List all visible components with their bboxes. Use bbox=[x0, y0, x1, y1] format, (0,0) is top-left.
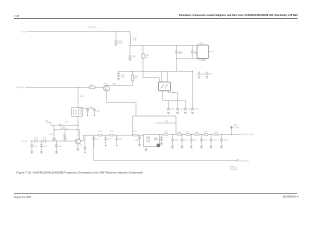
pin 2 of Y240 bbox=[204, 59, 206, 63]
capacitor C209 bbox=[51, 121, 78, 126]
header title text bbox=[179, 14, 298, 17]
inductor L246 series bbox=[164, 132, 168, 136]
capacitor C216 feed bbox=[49, 125, 55, 141]
svg-text:C221: C221 bbox=[119, 139, 123, 141]
resistor R240 bbox=[142, 45, 149, 77]
svg-text:C211: C211 bbox=[43, 138, 47, 140]
capacitor C222 in box bbox=[155, 138, 157, 140]
wire Q241 emitter bbox=[106, 91, 136, 116]
capacitor C227 series bbox=[214, 132, 218, 136]
ground below C224 bbox=[160, 143, 163, 145]
note shield text bbox=[230, 167, 239, 171]
resistor R241 bbox=[131, 71, 138, 85]
svg-text:.01UF: .01UF bbox=[118, 43, 122, 45]
ground below C229 bbox=[181, 147, 184, 149]
capacitor C229 shunt bbox=[181, 135, 188, 147]
svg-text:6816958H01-A: 6816958H01-A bbox=[283, 196, 299, 199]
svg-text:C215: C215 bbox=[58, 146, 62, 148]
terminal lower bus bbox=[237, 160, 239, 162]
capacitor C226 series bbox=[195, 132, 199, 136]
ground below C248 bbox=[117, 78, 120, 80]
svg-text:L241: L241 bbox=[62, 127, 66, 129]
svg-text:C247: C247 bbox=[209, 73, 213, 75]
ground stub below U240 box bbox=[145, 147, 148, 151]
label Y241 bbox=[172, 92, 176, 94]
wire Q240 output bbox=[80, 135, 143, 140]
svg-text:R246: R246 bbox=[80, 96, 84, 98]
footer date bbox=[14, 196, 32, 199]
footer rule bbox=[14, 193, 298, 195]
capacitor C210 series bbox=[34, 138, 38, 142]
svg-text:C251: C251 bbox=[180, 109, 184, 111]
svg-text:C228: C228 bbox=[174, 140, 178, 142]
label U240 bbox=[146, 137, 150, 139]
capacitor C250 bbox=[167, 101, 175, 112]
wire osc feeds bbox=[162, 71, 168, 82]
svg-text:C252: C252 bbox=[187, 109, 191, 111]
ground below C232 bbox=[210, 147, 213, 149]
svg-text:C240: C240 bbox=[118, 41, 122, 43]
capacitor C213 bbox=[62, 130, 66, 141]
footer part number 6816958H01-A bbox=[283, 196, 299, 199]
svg-text:3: 3 bbox=[212, 52, 213, 54]
svg-text:C213: C213 bbox=[62, 135, 66, 137]
label Y240 bbox=[199, 43, 203, 45]
junction bias at R drop bbox=[77, 125, 78, 126]
wire osc bottom bus bbox=[163, 100, 186, 102]
capacitor C232 shunt bbox=[210, 135, 217, 147]
wire lock line bbox=[25, 86, 104, 88]
capacitor C245 bbox=[93, 108, 100, 114]
capacitor C214 shunt bbox=[40, 141, 47, 152]
svg-text:L248: L248 bbox=[204, 132, 208, 134]
capacitor C242 bbox=[175, 45, 183, 55]
svg-text:C224: C224 bbox=[158, 140, 162, 142]
svg-text:C209: C209 bbox=[65, 121, 69, 123]
svg-text:C245: C245 bbox=[96, 111, 100, 113]
capacitor C221 shunt bbox=[115, 135, 122, 145]
inductor L243 series bbox=[98, 131, 103, 136]
ground below C221 bbox=[116, 145, 117, 146]
ground below C251 bbox=[176, 112, 179, 114]
wire to test point bbox=[231, 128, 233, 134]
ground below C219 bbox=[105, 145, 106, 146]
capacitor C253 bbox=[191, 109, 199, 111]
junction at L241 bbox=[53, 129, 54, 130]
capacitor C228 shunt bbox=[171, 135, 178, 147]
shield box upper bbox=[133, 116, 177, 135]
wire lower bus bbox=[94, 159, 237, 161]
inductor L248 series bbox=[204, 132, 208, 136]
capacitor C240 bbox=[115, 31, 123, 45]
svg-text:33PF: 33PF bbox=[178, 53, 182, 55]
svg-text:C242: C242 bbox=[178, 51, 182, 53]
svg-text:RX_INJ: RX_INJ bbox=[234, 127, 240, 129]
svg-text:C223: C223 bbox=[135, 140, 139, 142]
svg-text:C217: C217 bbox=[79, 145, 83, 147]
svg-text:C244: C244 bbox=[89, 106, 93, 108]
ground below C245 bbox=[94, 114, 95, 116]
module Y240 bbox=[197, 45, 209, 59]
net name on 9V rail bbox=[88, 27, 97, 29]
ground below C233 bbox=[220, 147, 223, 149]
svg-text:C227: C227 bbox=[214, 132, 218, 134]
junction lock line bbox=[77, 87, 78, 88]
wire buffer rail bbox=[118, 70, 193, 72]
svg-text:C220: C220 bbox=[109, 131, 113, 133]
svg-text:2: 2 bbox=[205, 60, 206, 62]
capacitor C231 shunt bbox=[200, 135, 207, 147]
capacitor C220 series bbox=[109, 131, 113, 136]
net label RX input bbox=[22, 141, 28, 143]
wire 9V rail bbox=[28, 30, 130, 32]
wire Q240 emitter bbox=[77, 144, 79, 149]
capacitor C225 series bbox=[177, 132, 181, 136]
capacitor C218 shunt bbox=[92, 135, 99, 145]
svg-text:1UH: 1UH bbox=[133, 39, 137, 41]
figure caption bbox=[16, 170, 143, 174]
wire osc out right bbox=[169, 91, 178, 101]
wire long drop bbox=[192, 71, 194, 108]
junction buffer rail left bbox=[132, 71, 133, 72]
label Q241 bbox=[104, 83, 108, 85]
wire bias caps bus bbox=[78, 107, 94, 109]
wire T240 primary bbox=[156, 121, 176, 123]
svg-text:L247: L247 bbox=[186, 132, 190, 134]
wire rx input 2 bbox=[37, 140, 43, 142]
capacitor C246 bbox=[198, 71, 206, 75]
wire to lower bus bbox=[93, 135, 95, 160]
inductor L247 series bbox=[186, 132, 190, 136]
ground below Q240 bbox=[77, 149, 80, 151]
svg-text:RX_INJ_VHF: RX_INJ_VHF bbox=[243, 134, 255, 136]
svg-text:C216: C216 bbox=[49, 134, 53, 136]
capacitor C215 shunt bbox=[55, 141, 62, 152]
svg-text:L242: L242 bbox=[133, 38, 137, 40]
wire output chain bbox=[160, 134, 232, 136]
ground below C217 bbox=[84, 149, 85, 153]
svg-text:RX_INJ_50: RX_INJ_50 bbox=[240, 161, 249, 163]
svg-text:Figure 7-22. HUD4022A/HUD4025B: Figure 7-22. HUD4022A/HUD4025B Frequency… bbox=[16, 170, 143, 174]
wire output stub bbox=[232, 134, 242, 136]
resistor R242 in box bbox=[147, 138, 149, 141]
svg-text:C231: C231 bbox=[203, 140, 207, 142]
net label 9V_RF bbox=[21, 31, 27, 33]
ground below C212 bbox=[31, 152, 34, 154]
capacitor C219 shunt bbox=[104, 135, 111, 145]
ground below C240 bbox=[115, 44, 118, 46]
capacitor C223 shunt bbox=[135, 135, 141, 144]
capacitor C211 series bbox=[43, 138, 47, 142]
ground below C218 bbox=[93, 145, 94, 146]
svg-text:C214: C214 bbox=[43, 146, 47, 148]
capacitor C233 shunt bbox=[220, 135, 227, 147]
inductor L242 bbox=[130, 31, 137, 43]
wire rx input 3 bbox=[46, 140, 76, 142]
svg-text:L243: L243 bbox=[98, 131, 102, 133]
pin 3 of Y240 bbox=[209, 52, 214, 54]
wire Q241 collector bbox=[108, 84, 133, 86]
svg-text:C232: C232 bbox=[213, 140, 217, 142]
svg-text:C241: C241 bbox=[132, 56, 136, 58]
svg-text:M240: M240 bbox=[234, 125, 238, 127]
svg-text:C233: C233 bbox=[223, 140, 227, 142]
svg-text:330: 330 bbox=[134, 78, 137, 80]
capacitor C248 bbox=[117, 71, 125, 78]
svg-text:T240: T240 bbox=[165, 121, 169, 123]
ground below C223 bbox=[138, 144, 141, 146]
junction rail right bbox=[192, 71, 193, 72]
label R246 bbox=[80, 96, 84, 98]
capacitor C244 bbox=[86, 106, 93, 113]
svg-text:7-38: 7-38 bbox=[14, 15, 20, 18]
ground below C247 bbox=[206, 77, 209, 79]
svg-text:100: 100 bbox=[145, 57, 148, 59]
transistor Q241 bbox=[104, 85, 110, 91]
svg-text:RX_IN: RX_IN bbox=[22, 141, 28, 143]
ground below C250 bbox=[167, 112, 170, 114]
svg-text:R241: R241 bbox=[134, 76, 138, 78]
oscillator Y241 bbox=[159, 82, 171, 91]
capacitor C252 bbox=[184, 101, 192, 112]
transistor Q242 bbox=[157, 144, 160, 147]
svg-text:C210: C210 bbox=[34, 138, 38, 140]
svg-text:9V_RF (4): 9V_RF (4) bbox=[88, 27, 97, 29]
capacitor C251 bbox=[176, 101, 184, 112]
transistor Q240 bbox=[75, 139, 80, 144]
svg-text:C219: C219 bbox=[107, 139, 111, 141]
resistor R245 bbox=[90, 84, 96, 88]
capacitor C217 low bbox=[79, 135, 86, 149]
wire R240 to oscillator bbox=[143, 78, 159, 82]
shield box lower bbox=[144, 134, 160, 146]
svg-text:C218: C218 bbox=[96, 139, 100, 141]
svg-text:Q241: Q241 bbox=[104, 83, 108, 85]
capacitor C224 shunt bbox=[158, 135, 163, 144]
ground below C252 bbox=[184, 112, 187, 114]
test point M240 bbox=[230, 126, 232, 128]
svg-text:C248: C248 bbox=[121, 75, 125, 77]
svg-text:L246: L246 bbox=[164, 132, 168, 134]
ground below C241 bbox=[129, 59, 132, 61]
svg-text:C230: C230 bbox=[193, 140, 197, 142]
svg-text:August 24, 2007: August 24, 2007 bbox=[14, 196, 32, 199]
junction output bbox=[231, 134, 232, 135]
svg-text:9.1PF: 9.1PF bbox=[62, 136, 66, 138]
ground below C228 bbox=[171, 147, 174, 149]
ground below C214 bbox=[40, 152, 43, 154]
wire R245 bias drop bbox=[77, 87, 79, 136]
svg-text:C246: C246 bbox=[201, 73, 205, 75]
svg-text:R245: R245 bbox=[90, 84, 94, 86]
svg-text:R240: R240 bbox=[145, 55, 149, 57]
wire rx input bbox=[30, 140, 35, 142]
capacitor C243 bbox=[191, 45, 199, 55]
svg-text:C212: C212 bbox=[34, 146, 38, 148]
wire osc out left bbox=[162, 91, 164, 101]
junction chain bbox=[172, 134, 222, 135]
ground below C246 bbox=[198, 77, 201, 79]
junction at L242 foot bbox=[129, 45, 130, 46]
capacitor C241 bbox=[129, 45, 137, 58]
net label LOCK bbox=[16, 87, 24, 89]
net label RX_INJ out bbox=[243, 134, 255, 136]
junction rx wire bbox=[53, 140, 56, 141]
net label lower bus bbox=[240, 161, 249, 163]
svg-text:C253: C253 bbox=[195, 109, 199, 111]
ground below C253 bbox=[191, 112, 194, 114]
inductor L245 series bbox=[133, 131, 138, 136]
net stub bias bbox=[46, 120, 51, 125]
svg-text:LOCK (4): LOCK (4) bbox=[16, 87, 24, 89]
svg-text:L245: L245 bbox=[133, 131, 137, 133]
svg-text:C226: C226 bbox=[195, 132, 199, 134]
svg-text:Y240: Y240 bbox=[199, 43, 203, 45]
ground below C231 bbox=[200, 147, 203, 149]
svg-text:9V_RF: 9V_RF bbox=[21, 31, 27, 33]
capacitor C212 shunt bbox=[30, 141, 37, 152]
wire down to buffer rail bbox=[176, 59, 178, 72]
header rule bbox=[14, 17, 298, 19]
label 19.2MHZ bbox=[199, 60, 206, 62]
filter block FL240 bbox=[72, 108, 83, 117]
svg-text:C229: C229 bbox=[184, 140, 188, 142]
svg-text:Schematics, Component Location: Schematics, Component Location Diagrams,… bbox=[179, 14, 298, 17]
svg-text:.01UF: .01UF bbox=[121, 76, 125, 78]
capacitor C230 shunt bbox=[190, 135, 197, 147]
capacitor C247 bbox=[206, 71, 214, 75]
ground below C215 bbox=[55, 152, 58, 154]
wire Q240 collector bbox=[79, 130, 81, 140]
inductor L241 bbox=[54, 127, 80, 130]
page number 7-38 bbox=[14, 15, 20, 18]
ground below C244 bbox=[87, 114, 88, 116]
svg-text:C225: C225 bbox=[177, 132, 181, 134]
wire cap bottoms to Y240 bbox=[176, 52, 204, 58]
label M240 bbox=[234, 125, 240, 129]
svg-text:R243: R243 bbox=[112, 84, 116, 86]
svg-text:GROUND: GROUND bbox=[230, 169, 238, 171]
ground below C230 bbox=[190, 147, 193, 149]
wire VCC branch bbox=[130, 43, 197, 45]
svg-text:C250: C250 bbox=[170, 109, 174, 111]
